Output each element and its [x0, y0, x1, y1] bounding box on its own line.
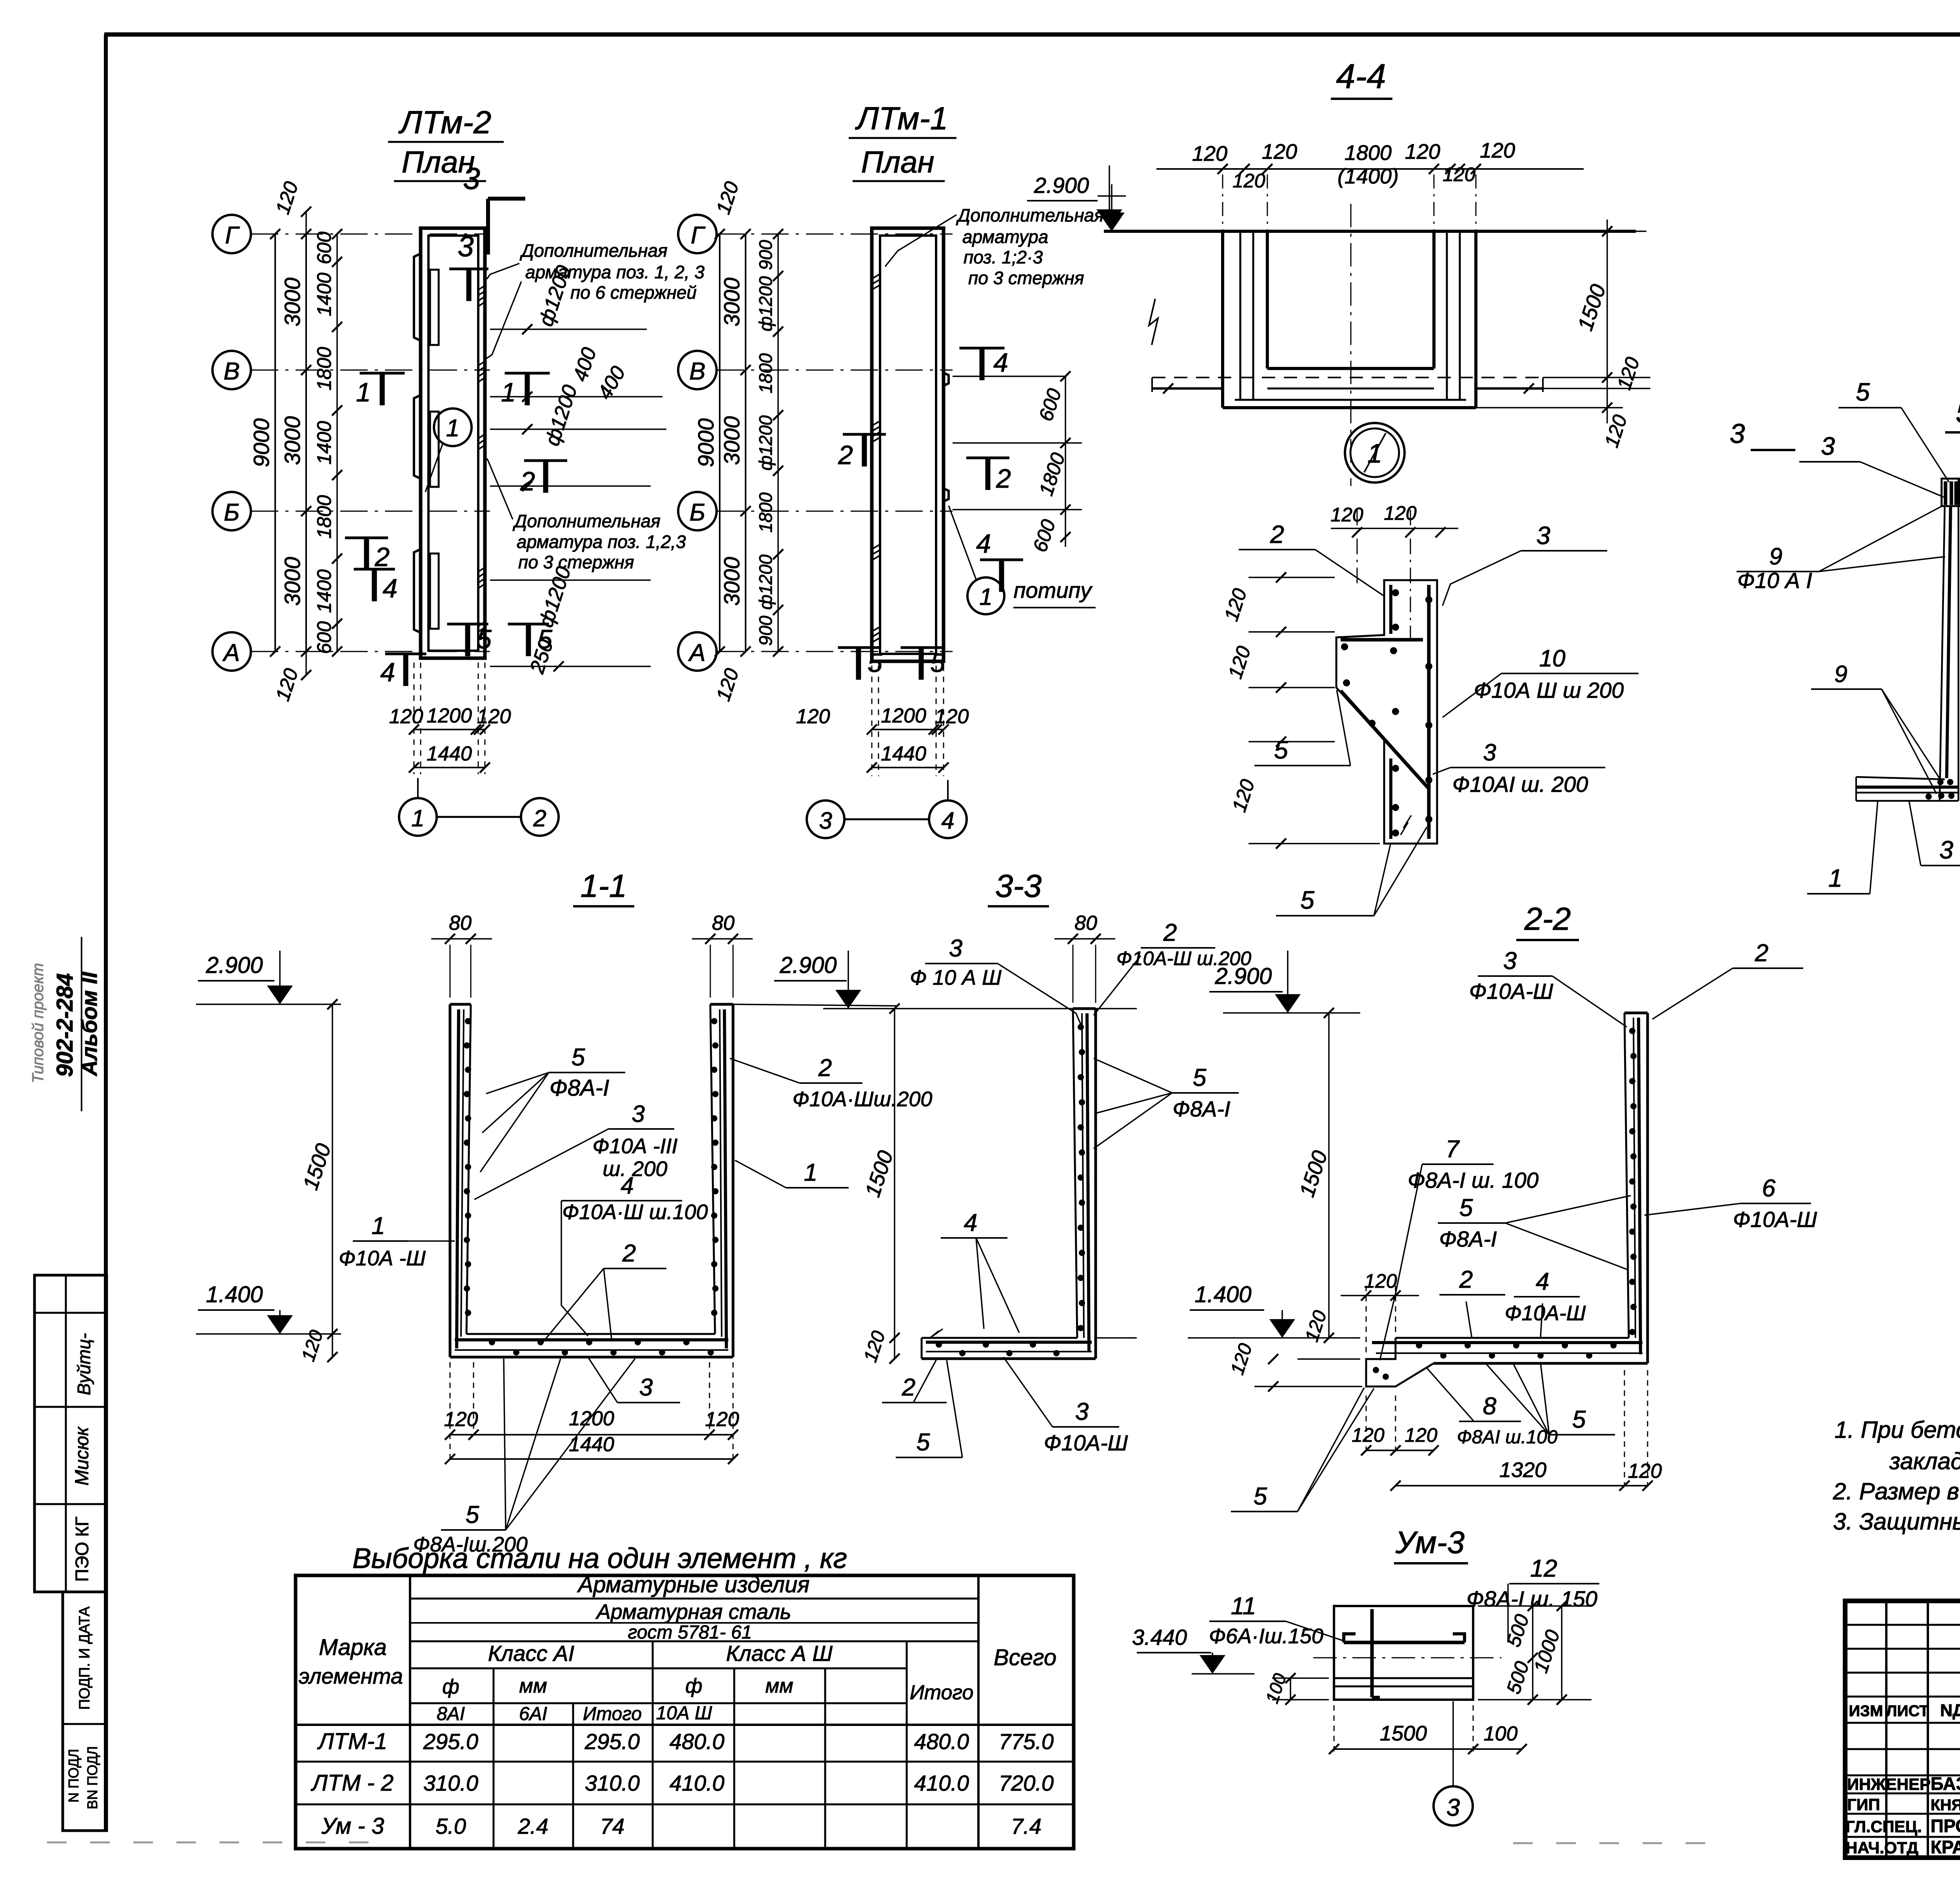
svg-text:4: 4: [993, 348, 1008, 377]
svg-text:2: 2: [1459, 1266, 1473, 1293]
svg-text:6: 6: [1762, 1175, 1776, 1202]
svg-text:9000: 9000: [693, 418, 718, 467]
grid axis circles and lines (LTm-1): [678, 215, 953, 671]
svg-text:600: 600: [313, 621, 335, 654]
svg-text:Итого: Итого: [910, 1681, 974, 1704]
svg-text:120: 120: [1384, 502, 1417, 524]
svg-text:Ф8А-I: Ф8А-I: [1439, 1227, 1497, 1251]
svg-text:Класс АI: Класс АI: [488, 1641, 574, 1666]
svg-text:3: 3: [463, 161, 480, 196]
step dim 120 (2-2): [1341, 1270, 1419, 1354]
svg-text:120: 120: [389, 705, 423, 728]
svg-text:3: 3: [1075, 1398, 1089, 1425]
title Um-3: [1394, 1525, 1468, 1563]
left margin stamp column (signatures): [34, 1275, 107, 1831]
general notes text: [1833, 1417, 1960, 1535]
svg-text:5: 5: [1572, 1406, 1586, 1433]
rebar bars and dots (section 1-1): [455, 1009, 728, 1356]
svg-text:2: 2: [902, 1374, 915, 1401]
svg-text:600: 600: [313, 232, 335, 265]
svg-text:3: 3: [819, 808, 832, 834]
level marks 1.400 (section 1-1): [196, 1282, 341, 1334]
svg-text:НАЧ.ОТД: НАЧ.ОТД: [1846, 1838, 1918, 1857]
svg-text:ЛТм-2: ЛТм-2: [398, 105, 492, 140]
svg-text:410.0: 410.0: [670, 1771, 724, 1795]
svg-text:ЛТМ-1: ЛТМ-1: [317, 1729, 387, 1754]
svg-text:2: 2: [1755, 940, 1768, 967]
bottom dimension lines of LTm-1: [796, 666, 969, 776]
svg-text:по 3 стержня: по 3 стержня: [968, 268, 1084, 288]
svg-text:120: 120: [1262, 140, 1297, 163]
svg-text:NДОКУМ.: NДОКУМ.: [1940, 1701, 1960, 1720]
svg-text:1200: 1200: [569, 1407, 614, 1430]
level marks 2.900 (section 1-1): [196, 951, 898, 1009]
svg-text:4: 4: [1536, 1268, 1549, 1295]
svg-text:Марка: Марка: [319, 1635, 387, 1660]
title 2-2: [1516, 901, 1579, 940]
svg-text:Ф 10 А Ш: Ф 10 А Ш: [910, 966, 1002, 989]
left margin album caption 902-2-284: [29, 937, 105, 1111]
axis circle 3 below Um-3: [1434, 1701, 1473, 1826]
svg-text:1440: 1440: [426, 742, 472, 765]
svg-text:2: 2: [374, 542, 390, 572]
svg-text:9: 9: [1834, 661, 1847, 687]
svg-text:5: 5: [930, 648, 945, 678]
svg-text:Ф10А-Ш: Ф10А-Ш: [1469, 979, 1553, 1004]
svg-text:Всего: Всего: [994, 1645, 1056, 1670]
svg-text:120: 120: [1232, 170, 1265, 192]
80 dim above wall (3-3): [823, 912, 1115, 1009]
svg-text:1: 1: [501, 377, 516, 407]
level 1.400 and 2.900 texts near 3-3/2-2: [1096, 951, 1360, 1338]
svg-text:БАЗАНОВ: БАЗАНОВ: [1931, 1773, 1960, 1794]
title block signature rows: [1846, 1773, 1960, 1857]
rebar bars with hooks (Um-3): [1344, 1609, 1465, 1697]
svg-text:поз. 1;2·3: поз. 1;2·3: [964, 247, 1043, 267]
title 1-1: [573, 868, 634, 906]
rebar bars and dots (section 2-2): [1372, 1018, 1642, 1380]
bottom dimensions (2-2): [1352, 1370, 1662, 1491]
svg-text:Ф10АI ш. 200: Ф10АI ш. 200: [1452, 772, 1588, 797]
svg-text:ГЛ.СПЕЦ.: ГЛ.СПЕЦ.: [1846, 1817, 1922, 1836]
svg-text:В: В: [223, 358, 240, 385]
svg-text:Г: Г: [691, 222, 706, 249]
svg-text:мм: мм: [519, 1675, 547, 1697]
svg-text:3.440: 3.440: [1132, 1625, 1187, 1650]
grid axis circles and lines (LTm-2): [212, 215, 490, 671]
svg-text:План: План: [861, 145, 935, 179]
note: dopolnitelnaya armatura po 3 sterzhnya (LTm-2): [485, 457, 686, 572]
L-wall concrete outline (section 3-3): [922, 1009, 1096, 1359]
svg-text:120: 120: [1330, 504, 1363, 526]
svg-text:1. При бетонировании залож: 1. При бетонировании заложить изделие: [1835, 1417, 1960, 1443]
svg-text:9: 9: [1769, 543, 1782, 570]
svg-text:ВN ПОДЛ: ВN ПОДЛ: [84, 1746, 100, 1809]
svg-text:ИЗМ: ИЗМ: [1849, 1702, 1883, 1720]
svg-text:3: 3: [949, 935, 962, 962]
title block header row (izm/list/dokum): [1849, 1701, 1960, 1720]
hatch marks on LTm-1 left wall: [873, 274, 879, 642]
svg-text:1800: 1800: [313, 347, 335, 390]
svg-text:120: 120: [1405, 140, 1440, 163]
svg-text:Ум - 3: Ум - 3: [321, 1813, 384, 1839]
svg-text:10А Ш: 10А Ш: [656, 1703, 713, 1724]
svg-text:Альбом II: Альбом II: [77, 971, 102, 1077]
left dimension 1500 and 120s (2-2): [1227, 1008, 1362, 1392]
svg-text:Ф10А -Ш: Ф10А -Ш: [339, 1247, 426, 1270]
svg-text:Ф10А·Ш ш.100: Ф10А·Ш ш.100: [562, 1200, 708, 1224]
svg-text:120: 120: [1364, 1270, 1397, 1292]
section marks on LTm-1 (4,2,5): [838, 348, 1023, 680]
svg-text:7.4: 7.4: [1011, 1814, 1042, 1838]
svg-text:120: 120: [1192, 142, 1227, 165]
svg-text:ЛТм-1: ЛТм-1: [855, 101, 948, 136]
svg-text:1: 1: [446, 415, 459, 442]
svg-text:480.0: 480.0: [914, 1729, 969, 1754]
svg-text:3000: 3000: [719, 557, 744, 606]
wall joint detail outline (uzel 1): [1330, 502, 1458, 844]
svg-text:арматура поз. 1,2,3: арматура поз. 1,2,3: [517, 532, 686, 552]
svg-text:2: 2: [533, 805, 546, 831]
svg-text:3: 3: [632, 1101, 644, 1127]
svg-text:120: 120: [1352, 1424, 1385, 1446]
labels (2-2): [1231, 940, 1817, 1512]
svg-text:1800: 1800: [1345, 141, 1392, 165]
svg-text:Вуйтц-: Вуйтц-: [74, 1333, 94, 1396]
section mark 3 top of LTm-2: [463, 161, 525, 254]
rebar bars in uzel 1 detail: [1341, 585, 1437, 844]
note: dopolnitelnaya armatura (LTm-1): [885, 205, 1104, 288]
svg-text:элемента: элемента: [299, 1664, 403, 1688]
svg-text:3-3: 3-3: [995, 868, 1042, 904]
labels 11,12 and level 3.440 (Um-3): [1132, 1555, 1599, 1674]
svg-text:Ф10А-Ш: Ф10А-Ш: [1044, 1430, 1128, 1455]
svg-text:ГИП: ГИП: [1847, 1795, 1880, 1814]
svg-text:720.0: 720.0: [999, 1771, 1054, 1795]
callout circle 1 with 'po tipu' (LTm-1): [949, 506, 1096, 614]
svg-text:1: 1: [411, 805, 424, 831]
svg-text:1.400: 1.400: [206, 1282, 263, 1307]
heading of steel summary table: [352, 1543, 847, 1574]
svg-text:900: 900: [755, 615, 776, 646]
svg-text:Б: Б: [224, 499, 240, 526]
svg-text:Дополнительная: Дополнительная: [519, 240, 668, 261]
svg-text:2: 2: [838, 440, 853, 470]
svg-text:Г: Г: [225, 222, 240, 249]
svg-text:5: 5: [572, 1044, 585, 1071]
title LTm-1: [849, 101, 956, 181]
svg-text:4-4: 4-4: [1336, 57, 1386, 96]
svg-text:9000: 9000: [249, 418, 274, 467]
svg-text:Типовой проект: Типовой проект: [29, 963, 47, 1083]
svg-text:2. Размер в скобках относит: 2. Размер в скобках относится к ЛТм-2: [1833, 1478, 1960, 1504]
svg-text:8АI: 8АI: [437, 1704, 465, 1724]
svg-text:1: 1: [356, 377, 371, 407]
svg-text:гост 5781- 61: гост 5781- 61: [628, 1622, 752, 1643]
svg-text:Ф10А·Шш.200: Ф10А·Шш.200: [793, 1087, 933, 1111]
svg-text:120: 120: [796, 705, 830, 728]
svg-text:1800: 1800: [313, 495, 335, 539]
svg-text:2: 2: [996, 464, 1011, 494]
svg-text:2.900: 2.900: [1034, 173, 1089, 198]
left dimension chains of LTm-1: [693, 179, 783, 704]
left dimension 1500/120 (1-1): [298, 999, 338, 1364]
svg-text:ПЭО КГ: ПЭО КГ: [72, 1517, 92, 1582]
steel summary header texts: [299, 1572, 1056, 1724]
axis circles 3 and 4 below LTm-1: [807, 780, 967, 838]
svg-text:3: 3: [1821, 432, 1835, 460]
svg-text:80: 80: [1074, 912, 1097, 935]
svg-text:5: 5: [1193, 1064, 1207, 1091]
svg-text:1: 1: [979, 584, 992, 610]
svg-text:1440: 1440: [881, 742, 926, 765]
svg-text:120: 120: [1405, 1424, 1437, 1446]
svg-text:ф: ф: [442, 1675, 459, 1698]
title 4-4: [1331, 57, 1392, 99]
plan LTm-2 outline: [414, 228, 485, 658]
svg-text:Ф10А -III: Ф10А -III: [592, 1134, 677, 1158]
svg-text:5: 5: [466, 1501, 479, 1528]
svg-text:1400: 1400: [313, 569, 335, 613]
svg-text:Ф8А-I ш. 100: Ф8А-I ш. 100: [1408, 1168, 1539, 1192]
svg-text:900: 900: [755, 240, 776, 270]
svg-text:1: 1: [1828, 864, 1842, 892]
svg-text:5: 5: [916, 1429, 930, 1456]
svg-text:3000: 3000: [719, 416, 744, 465]
svg-text:закладное МН-6.: закладное МН-6.: [1889, 1448, 1960, 1474]
callout circle 1 on LTm-2 plan: [425, 408, 472, 492]
svg-text:1800: 1800: [755, 353, 776, 394]
bottom dimension chains (1-1): [444, 1362, 739, 1464]
axis circles 1 and 2 below LTm-2: [399, 778, 559, 836]
svg-text:1: 1: [804, 1159, 817, 1186]
svg-text:120: 120: [444, 1408, 478, 1431]
section mark 3 right of 4-4: [1730, 418, 1795, 450]
svg-text:1-1: 1-1: [581, 868, 627, 904]
svg-text:1400: 1400: [313, 272, 335, 316]
svg-text:Ф8А-I: Ф8А-I: [1172, 1096, 1230, 1121]
top dimension line of section 4-4: [1156, 139, 1584, 231]
svg-text:775.0: 775.0: [999, 1729, 1054, 1754]
hatch marks on LTm-2 right wall: [479, 286, 485, 637]
note: dopolnitelnaya armatura po 6 sterzhney (LTm-2): [486, 240, 705, 359]
svg-text:КНЯГИНИЧЕВ: КНЯГИНИЧЕВ: [1931, 1797, 1960, 1814]
labels of uzel 1 (2,3,10,5): [1239, 520, 1639, 916]
svg-text:295.0: 295.0: [423, 1729, 478, 1754]
svg-text:3000: 3000: [280, 278, 305, 327]
svg-text:3: 3: [639, 1374, 653, 1401]
svg-text:100: 100: [1484, 1722, 1518, 1745]
svg-text:3000: 3000: [280, 416, 305, 465]
title LTm-2: [388, 105, 504, 181]
bottom dimension lines of LTm-2 (120/1200/120 and 1440): [389, 662, 511, 774]
svg-text:ф1200: ф1200: [755, 554, 776, 610]
svg-text:120: 120: [935, 705, 969, 728]
svg-text:Ф10А-Ш: Ф10А-Ш: [1505, 1301, 1586, 1325]
U-channel concrete outline (section 1-1): [450, 1004, 733, 1357]
svg-text:ЛТМ - 2: ЛТМ - 2: [310, 1770, 394, 1796]
right dimension 1500/120 (4-4): [1476, 220, 1650, 450]
svg-text:2-2: 2-2: [1524, 901, 1571, 937]
svg-text:2: 2: [1163, 919, 1177, 946]
rebar labels (1-1): [339, 1044, 932, 1556]
svg-text:5: 5: [537, 624, 552, 654]
plan LTm-1 outline: [872, 228, 949, 661]
svg-text:1.400: 1.400: [1194, 1282, 1251, 1307]
svg-text:Ф8А-I: Ф8А-I: [550, 1075, 609, 1101]
svg-text:Дополнительная: Дополнительная: [512, 511, 661, 531]
svg-text:Ф8АI ш.100: Ф8АI ш.100: [1457, 1427, 1558, 1448]
svg-text:120: 120: [705, 1408, 739, 1431]
section marks 1,2,4,5 around LTm-2: [345, 373, 567, 687]
section mark 3 inside LTm-2: [449, 230, 488, 301]
svg-text:Класс А Ш: Класс А Ш: [726, 1641, 833, 1666]
svg-text:3: 3: [1536, 521, 1550, 550]
svg-text:Арматурные изделия: Арматурные изделия: [577, 1572, 809, 1597]
svg-text:Выборка стали на один элеме: Выборка стали на один элемент , кг: [352, 1543, 847, 1574]
svg-text:2: 2: [520, 466, 535, 496]
svg-text:5: 5: [867, 648, 882, 678]
title block grid: [1845, 1601, 1960, 1858]
svg-text:ИНЖЕНЕР: ИНЖЕНЕР: [1847, 1775, 1931, 1793]
svg-text:2.900: 2.900: [205, 953, 263, 978]
svg-text:4: 4: [383, 573, 397, 603]
svg-text:Ф10А-Ш ш.200: Ф10А-Ш ш.200: [1116, 947, 1251, 969]
svg-text:120: 120: [477, 705, 511, 728]
svg-text:2.900: 2.900: [779, 953, 837, 978]
svg-text:1200: 1200: [426, 704, 472, 727]
svg-text:7: 7: [1446, 1136, 1460, 1163]
steel summary table grid: [296, 1575, 1074, 1849]
svg-text:5.0: 5.0: [436, 1814, 466, 1838]
svg-text:80: 80: [712, 912, 735, 935]
svg-text:3: 3: [457, 230, 474, 263]
svg-text:N ПОДЛ: N ПОДЛ: [65, 1749, 82, 1802]
svg-text:3: 3: [1483, 739, 1496, 766]
svg-text:80: 80: [449, 912, 472, 935]
svg-text:4: 4: [621, 1172, 633, 1199]
svg-text:410.0: 410.0: [914, 1771, 969, 1795]
svg-text:5: 5: [1274, 736, 1288, 764]
svg-text:ф: ф: [685, 1675, 702, 1697]
svg-text:5: 5: [1254, 1483, 1267, 1510]
svg-text:902-2-284: 902-2-284: [52, 973, 78, 1077]
svg-text:120: 120: [1628, 1460, 1662, 1483]
svg-text:2: 2: [622, 1240, 636, 1267]
svg-text:11: 11: [1231, 1593, 1256, 1620]
svg-text:по 3 стержня: по 3 стержня: [518, 552, 634, 572]
svg-text:4: 4: [964, 1209, 977, 1236]
steel summary data rows: [310, 1729, 1054, 1839]
svg-text:Мисюк: Мисюк: [72, 1426, 93, 1486]
ground level line with mark (4-4): [1098, 184, 1636, 231]
svg-text:295.0: 295.0: [584, 1729, 640, 1754]
anchor block outline (Um-3): [1313, 1606, 1501, 1700]
svg-text:5: 5: [1300, 886, 1314, 914]
svg-text:3: 3: [1730, 418, 1745, 449]
svg-text:арматура: арматура: [962, 227, 1048, 247]
svg-text:5-5: 5-5: [1956, 394, 1960, 430]
svg-text:8: 8: [1483, 1393, 1497, 1420]
svg-text:ЛИСТ: ЛИСТ: [1886, 1702, 1929, 1720]
labels (3-3): [882, 919, 1251, 1457]
svg-text:мм: мм: [765, 1675, 793, 1697]
svg-text:А: А: [688, 639, 705, 666]
right-side spacing dims of LTm-2 (f1200/400): [490, 263, 666, 677]
svg-text:потипу: потипу: [1014, 578, 1093, 602]
svg-text:310.0: 310.0: [423, 1771, 478, 1795]
svg-text:5: 5: [1459, 1194, 1473, 1221]
svg-text:3: 3: [1939, 836, 1953, 864]
svg-text:2: 2: [1270, 520, 1284, 548]
svg-text:Дополнительная: Дополнительная: [956, 205, 1104, 225]
title 5-5: [1945, 394, 1960, 432]
left dimension 1500 (3-3): [860, 1004, 900, 1365]
svg-text:4: 4: [976, 529, 991, 559]
svg-text:В: В: [689, 358, 705, 385]
svg-text:3000: 3000: [719, 278, 744, 327]
svg-text:1500: 1500: [1380, 1722, 1427, 1745]
svg-text:1400: 1400: [313, 421, 335, 465]
rebar bars and dots (section 3-3): [926, 1013, 1092, 1356]
channel cross-section walls (4-4): [1149, 204, 1543, 486]
svg-text:1320: 1320: [1499, 1458, 1546, 1482]
svg-text:3000: 3000: [280, 557, 305, 606]
svg-text:Арматурная сталь: Арматурная сталь: [595, 1600, 791, 1624]
svg-text:1200: 1200: [881, 704, 926, 727]
svg-text:Итого: Итого: [583, 1704, 642, 1724]
dimensions (Um-3): [1261, 1601, 1592, 1754]
right-side dims of LTm-1 (600/1800/600): [953, 371, 1082, 555]
title 3-3: [988, 868, 1049, 906]
level mark 2.900 above LTm-1: [1027, 165, 1122, 228]
svg-text:ПРОНИН: ПРОНИН: [1931, 1816, 1960, 1836]
svg-text:120: 120: [1443, 163, 1475, 185]
svg-text:1: 1: [372, 1212, 385, 1239]
svg-text:4: 4: [380, 657, 395, 687]
svg-text:Ум-3: Ум-3: [1395, 1525, 1465, 1560]
svg-text:120: 120: [1480, 139, 1515, 162]
svg-text:Ф8А-I ш. 150: Ф8А-I ш. 150: [1466, 1586, 1597, 1611]
svg-text:3: 3: [1503, 947, 1517, 974]
svg-text:Б: Б: [690, 499, 705, 526]
thin wall of detail 5-5: [1856, 479, 1959, 801]
svg-text:ПОДП. И ДАТА: ПОДП. И ДАТА: [76, 1606, 93, 1710]
80 dims above walls (1-1): [431, 912, 753, 998]
svg-text:6АI: 6АI: [519, 1704, 547, 1724]
svg-text:4: 4: [941, 808, 954, 834]
detail callout circle 1 (4-4): [1345, 423, 1405, 483]
svg-text:А: А: [222, 639, 240, 666]
svg-text:(1400): (1400): [1338, 165, 1399, 188]
left dimension chains of LTm-2 (9000/3000/600-1400-1800): [249, 179, 342, 704]
svg-text:310.0: 310.0: [585, 1771, 640, 1795]
svg-text:ш. 200: ш. 200: [603, 1157, 668, 1181]
svg-text:ф1200: ф1200: [755, 415, 776, 470]
svg-text:480.0: 480.0: [670, 1729, 724, 1754]
svg-text:5: 5: [1856, 378, 1870, 406]
labels of detail 5-5: [1737, 378, 1960, 894]
svg-text:3: 3: [1446, 1794, 1460, 1821]
svg-text:Ф10А-Ш: Ф10А-Ш: [1733, 1207, 1817, 1232]
svg-text:КРАСАВИН: КРАСАВИН: [1931, 1837, 1960, 1857]
svg-text:74: 74: [600, 1814, 624, 1838]
svg-text:10: 10: [1539, 645, 1566, 671]
left dimension lines 120x3 (uzel 1): [1220, 572, 1380, 849]
svg-text:ф1200: ф1200: [755, 276, 776, 331]
L-wall concrete outline mirrored (section 2-2): [1366, 1013, 1648, 1386]
svg-text:3. Защитный слой бетона: 3. Защитный слой бетона - 20мм .: [1833, 1508, 1960, 1535]
